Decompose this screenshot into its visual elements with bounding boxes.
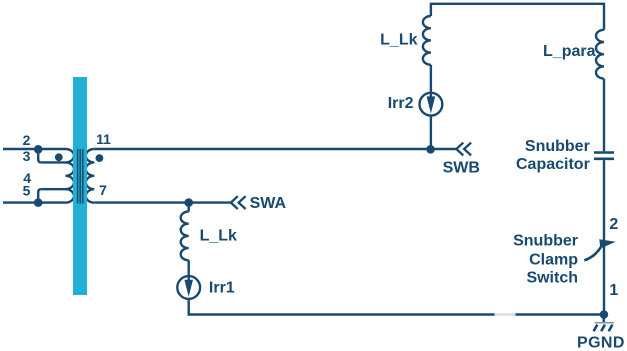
wire pin 11 to node SWB: [94, 148, 456, 150]
wire Irr1 to bottom rail and bottom rail to PGND: [189, 299, 604, 315]
primary phase dot: [55, 153, 63, 161]
wire L_Lk to Irr1: [187, 260, 189, 280]
inductor L_Lk (top): [423, 16, 431, 65]
svg-text:L_Lk: L_Lk: [200, 228, 237, 245]
snubber clamp switch pointer arrow: [584, 239, 615, 260]
inductor L_para: [596, 30, 604, 79]
svg-text:PGND: PGND: [577, 335, 625, 351]
junction pins 4-5: [34, 198, 43, 207]
svg-text:3: 3: [23, 148, 31, 164]
wire pin2-pin3 tie: [38, 149, 41, 162]
connector chevron SWB: [456, 143, 471, 156]
junction pins 2-3: [34, 145, 43, 154]
svg-text:7: 7: [99, 182, 107, 198]
wire pin 3 stub: [41, 161, 65, 163]
svg-text:SWB: SWB: [443, 160, 480, 177]
svg-text:Snubber: Snubber: [525, 138, 590, 155]
svg-text:2: 2: [23, 132, 31, 148]
svg-text:L_para: L_para: [543, 43, 596, 60]
svg-text:Clamp: Clamp: [529, 252, 578, 269]
ground symbol PGND: [594, 317, 614, 331]
transformer T1 primary winding: [66, 149, 75, 203]
connector chevron SWA: [231, 196, 246, 209]
inductor L_Lk (bottom): [181, 212, 189, 261]
wire pin4-pin5 tie: [38, 189, 41, 202]
svg-text:11: 11: [96, 131, 111, 147]
junction node PGND: [600, 310, 609, 319]
svg-text:1: 1: [609, 282, 618, 299]
wire L_para to snubber capacitor: [603, 79, 605, 152]
svg-text:SWA: SWA: [250, 195, 287, 212]
svg-text:2: 2: [609, 216, 618, 233]
faded segment on bottom rail: [495, 313, 516, 316]
wire L_Lk to Irr2: [430, 65, 432, 97]
svg-text:5: 5: [23, 183, 31, 199]
svg-text:L_Lk: L_Lk: [380, 32, 417, 49]
wire pin 7 to node SWA: [94, 201, 230, 203]
svg-text:Switch: Switch: [526, 270, 578, 287]
svg-text:Snubber: Snubber: [513, 232, 578, 249]
wire Irr2 to node SWB: [430, 116, 432, 149]
wire capacitor to switch pin 2 and pin 1 to PGND: [603, 160, 605, 314]
junction node SWB: [426, 145, 435, 154]
svg-text:Irr2: Irr2: [388, 95, 414, 112]
secondary phase dot: [96, 154, 104, 162]
current source Irr2: [420, 93, 443, 116]
svg-text:Irr1: Irr1: [209, 279, 235, 296]
current source Irr1: [177, 276, 200, 299]
transformer core bar: [73, 77, 87, 295]
wire pin 4 stub: [41, 188, 65, 190]
junction node SWA: [184, 198, 193, 207]
wire pin 2 lead: [3, 148, 66, 150]
wire top rail: [431, 4, 604, 30]
transformer core lines: [78, 149, 83, 204]
wire node SWA down through Irr1 to bottom rail: [187, 203, 189, 212]
snubber capacitor plates: [594, 153, 614, 159]
svg-text:Capacitor: Capacitor: [516, 156, 590, 173]
transformer T1 secondary winding: [86, 149, 95, 203]
wire pin 5 lead: [3, 201, 66, 203]
